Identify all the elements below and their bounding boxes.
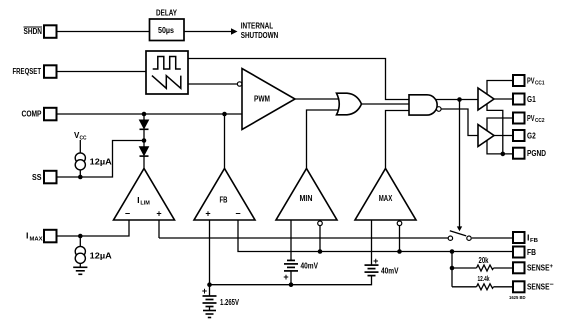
wire IMAX current source to ground: [79, 263, 81, 267]
svg-text:INTERNAL: INTERNAL: [241, 20, 274, 30]
svg-text:I: I: [26, 232, 29, 241]
NAND gate: [409, 95, 441, 115]
wire ILIM plus input to IFB net: [158, 220, 160, 238]
wire NAND output down to switch control arrow: [459, 100, 461, 228]
wire MIN inverting input: [319, 226, 321, 252]
svg-text:SHDN: SHDN: [24, 27, 43, 36]
switch: [448, 231, 471, 241]
wire 12.4k to SENSE-: [452, 286, 513, 288]
svg-text:CC2: CC2: [535, 118, 545, 124]
wire FB amp output to COMP net: [224, 114, 226, 169]
reference 1.265V: [202, 286, 240, 307]
wire MAX output to NAND input: [386, 111, 411, 169]
svg-text:+: +: [205, 209, 210, 219]
svg-text:PWM: PWM: [254, 94, 270, 103]
svg-text:50µs: 50µs: [158, 26, 174, 35]
diode D1: [140, 120, 149, 129]
pin G2: [513, 130, 536, 141]
svg-text:PV: PV: [527, 76, 535, 85]
svg-text:LIM: LIM: [140, 201, 150, 207]
svg-text:DELAY: DELAY: [156, 8, 178, 17]
oscillator block: [146, 51, 188, 94]
junction dot MIN battery on reference net: [289, 282, 294, 287]
svg-text:1625 BD: 1625 BD: [509, 295, 526, 300]
wire PVCC1: [487, 81, 513, 95]
wire G2: [494, 135, 513, 137]
svg-text:MAX: MAX: [30, 236, 43, 242]
comparator MAX: [355, 169, 416, 226]
svg-text:12µA: 12µA: [90, 157, 112, 166]
resistor 12.4k: [477, 274, 494, 290]
switch control arrow: [457, 226, 462, 231]
comparator MIN: [276, 169, 337, 226]
junction dot PGND: [501, 152, 506, 157]
gate driver 1: [478, 88, 494, 110]
error amp FB: [194, 169, 255, 221]
svg-text:12.4k: 12.4k: [478, 274, 491, 283]
svg-text:SS: SS: [32, 173, 42, 182]
pin SENSE-: [513, 281, 554, 292]
wire IFB net: [159, 237, 449, 239]
wire reference battery top: [209, 285, 211, 296]
wire reference net to MAX offset battery: [210, 275, 372, 285]
svg-text:+: +: [202, 286, 207, 296]
ground (IMAX current source): [73, 267, 87, 274]
wire oscillator top output to NAND input: [188, 59, 410, 100]
current source 12uA (IMAX): [75, 246, 112, 263]
svg-text:−: −: [235, 209, 240, 219]
pin COMP: [22, 108, 57, 121]
wire oscillator sawtooth output to PWM: [188, 83, 237, 85]
wire NAND inverted output to driver 2: [441, 109, 478, 136]
svg-text:FB: FB: [527, 248, 536, 257]
junction dot IMAX: [78, 234, 83, 239]
junction dot COMP-diode: [142, 112, 147, 117]
wire G1: [494, 98, 513, 100]
wire IMAX current source: [79, 236, 81, 247]
svg-text:1.265V: 1.265V: [220, 298, 239, 307]
junction dot divider tap: [450, 266, 455, 271]
wire SHDN to DELAY: [57, 31, 150, 33]
junction dot NAND output: [457, 97, 462, 102]
wire MAX inverting input: [399, 226, 401, 252]
wire reference battery to ground: [209, 307, 211, 311]
svg-text:+: +: [283, 272, 288, 282]
svg-text:PGND: PGND: [527, 149, 546, 158]
svg-text:40mV: 40mV: [381, 267, 399, 276]
pin SENSE+: [513, 262, 554, 273]
PWM comparator: [237, 69, 295, 130]
pin PGND: [513, 148, 546, 159]
wire switch to IFB pin: [472, 237, 513, 239]
pin FB: [513, 247, 536, 258]
current source 12uA (SS): [75, 153, 112, 170]
wire PVCC2: [487, 118, 513, 131]
svg-text:SHUTDOWN: SHUTDOWN: [241, 30, 279, 40]
wire COMP to diode D1: [143, 114, 145, 120]
wire FB net to divider: [451, 252, 453, 287]
junction dot MAX inverting on FB net: [397, 249, 402, 254]
wire driver 1 ground to PGND: [487, 104, 503, 154]
wire OR output to NAND input: [361, 103, 410, 105]
wire NAND output to driver 1: [435, 99, 478, 101]
wire PWM output to OR input: [295, 98, 340, 100]
pin IFB: [513, 232, 538, 244]
junction dot SS: [78, 175, 83, 180]
wire diode D2 to ILIM output: [143, 156, 145, 169]
svg-text:MIN: MIN: [300, 194, 313, 203]
pin SHDN: [24, 25, 57, 38]
pin IMAX: [26, 230, 57, 243]
battery 40mV (MAX offset): [365, 256, 400, 276]
junction dot reference net: [207, 282, 212, 287]
wire MIN offset battery bottom: [290, 271, 292, 284]
svg-text:I: I: [137, 196, 140, 205]
pin PVCC2: [513, 113, 545, 125]
pin G1: [513, 94, 536, 105]
svg-text:+: +: [156, 209, 161, 219]
wire DELAY to shutdown arrow: [184, 31, 232, 33]
pin PVCC1: [513, 75, 545, 87]
svg-text:PV: PV: [527, 114, 535, 123]
pin SS: [32, 171, 57, 184]
svg-text:COMP: COMP: [22, 110, 43, 119]
svg-text:FB: FB: [220, 195, 228, 204]
svg-text:20k: 20k: [479, 256, 489, 265]
svg-text:CC: CC: [80, 135, 87, 141]
wire MAX offset battery top: [371, 220, 373, 265]
OR gate: [337, 93, 362, 115]
svg-text:MAX: MAX: [379, 194, 393, 203]
junction dot FB net to divider: [450, 249, 455, 254]
wire FREQSET to oscillator: [57, 71, 147, 73]
wire driver 2 ground to PGND: [487, 140, 513, 154]
wire 20k to SENSE+: [452, 267, 513, 269]
svg-text:40mV: 40mV: [301, 262, 319, 271]
ground (reference): [203, 311, 216, 318]
svg-text:12µA: 12µA: [90, 251, 112, 260]
wire SS current source to SS line: [79, 170, 81, 177]
svg-text:FREQSET: FREQSET: [13, 67, 42, 76]
svg-text:FB: FB: [530, 238, 538, 244]
svg-text:−: −: [125, 209, 130, 219]
wire FB amp plus input to reference: [209, 220, 211, 285]
battery 40mV (MIN offset): [283, 260, 318, 281]
wire IMAX to ILIM inverting input: [57, 220, 130, 236]
VCC supply for SS current source: [74, 131, 87, 142]
wire FB net: [238, 220, 513, 252]
junction dot FB output on COMP net: [222, 112, 227, 117]
svg-text:G2: G2: [527, 131, 536, 140]
junction dot MIN inverting on FB net: [318, 249, 323, 254]
wire VCC to SS current source: [79, 140, 81, 153]
resistor 20k: [477, 256, 494, 271]
internal shutdown arrow: [231, 20, 278, 40]
svg-text:G1: G1: [527, 95, 536, 104]
pin FREQSET: [13, 65, 57, 78]
wire diode D1 to diode D2 junction: [143, 130, 145, 147]
wire MIN offset battery top: [290, 220, 292, 260]
wire COMP net: [57, 113, 243, 115]
junction dot SS-diode: [142, 138, 147, 143]
wire SS net to diode junction: [57, 141, 145, 178]
diode D2: [140, 147, 149, 156]
gate driver 2: [478, 125, 494, 147]
svg-text:CC1: CC1: [535, 81, 545, 87]
comparator ILIM: [114, 169, 175, 221]
delay block 50us: [150, 8, 185, 40]
wire MIN output to OR input: [307, 110, 341, 169]
